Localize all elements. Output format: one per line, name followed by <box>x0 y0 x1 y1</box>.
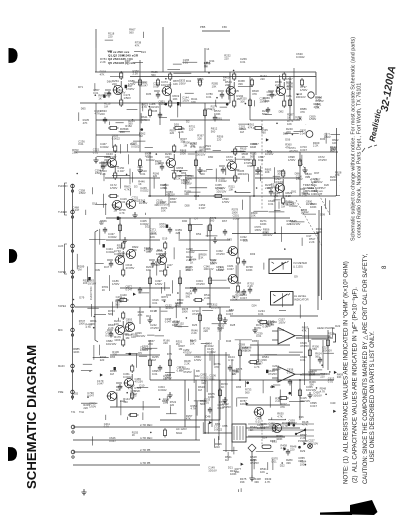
component value label <box>263 322 270 329</box>
transistor Q1 <box>113 85 123 94</box>
wire <box>105 415 107 420</box>
capacitor <box>193 287 197 294</box>
svg-text:1/50V: 1/50V <box>233 216 240 220</box>
component value label <box>176 339 183 346</box>
wire <box>235 265 237 278</box>
wire <box>206 225 208 237</box>
wire <box>253 100 255 106</box>
component value label <box>248 123 255 130</box>
component value label <box>314 177 323 184</box>
component value label <box>124 329 131 336</box>
component value label <box>142 344 152 351</box>
svg-text:100K: 100K <box>118 254 124 258</box>
svg-text:220: 220 <box>170 131 175 135</box>
resistor <box>108 194 119 197</box>
component value label <box>302 420 309 427</box>
wire <box>96 134 140 136</box>
component value label <box>287 200 294 207</box>
wire <box>281 462 283 464</box>
component value label <box>180 137 187 144</box>
svg-text:10/16V: 10/16V <box>277 172 286 176</box>
component value label <box>229 308 234 312</box>
component value label <box>98 94 105 101</box>
component value label <box>272 364 281 371</box>
svg-text:D83: D83 <box>227 238 232 242</box>
component value labels <box>124 93 131 100</box>
component value label <box>183 141 190 148</box>
capacitor <box>228 365 232 372</box>
wire <box>253 460 255 469</box>
component value label <box>254 477 261 484</box>
component value label <box>142 102 149 109</box>
component value label <box>312 344 319 351</box>
resistor <box>208 223 211 233</box>
wire <box>321 364 323 366</box>
component value label <box>186 414 193 421</box>
wire <box>220 106 228 108</box>
svg-text:0.0022: 0.0022 <box>105 334 114 338</box>
svg-text:10K: 10K <box>150 235 155 239</box>
svg-text:D58: D58 <box>185 203 190 207</box>
svg-text:1K: 1K <box>138 182 141 186</box>
svg-text:560: 560 <box>155 263 160 267</box>
junction node <box>253 195 255 197</box>
resistor <box>194 158 197 168</box>
svg-text:1/50V: 1/50V <box>288 158 295 162</box>
svg-text:D46: D46 <box>226 339 232 343</box>
wire <box>235 191 251 193</box>
component value labels <box>216 265 223 272</box>
component value labels <box>100 142 109 149</box>
component value label <box>167 352 172 356</box>
component value label <box>97 379 104 386</box>
component value labels <box>250 142 257 149</box>
wire <box>73 299 75 301</box>
svg-text:D81: D81 <box>287 94 293 98</box>
resistor <box>248 360 259 363</box>
wire meter right vertical <box>317 234 319 311</box>
wire <box>249 77 251 120</box>
svg-text:D22: D22 <box>335 324 340 328</box>
capacitor <box>168 227 172 234</box>
svg-text:10K: 10K <box>159 255 164 259</box>
resistor <box>198 78 201 87</box>
wire <box>122 251 124 256</box>
component value label <box>184 359 191 366</box>
svg-text:D9: D9 <box>294 275 298 279</box>
wire <box>156 263 158 276</box>
component value label <box>313 189 318 193</box>
svg-text:1/50V: 1/50V <box>89 404 96 408</box>
component value label <box>272 440 277 444</box>
wire <box>165 78 167 80</box>
wire <box>299 118 301 120</box>
input jack <box>71 425 75 433</box>
wire <box>246 404 290 406</box>
svg-text:47/25V: 47/25V <box>268 372 277 376</box>
component value labels <box>126 333 133 340</box>
component value labels <box>230 323 236 327</box>
component value labels <box>182 219 188 223</box>
wire <box>105 39 113 41</box>
component value labels <box>282 421 289 428</box>
component blob <box>241 463 244 466</box>
component value label <box>73 205 80 212</box>
wire <box>235 191 237 193</box>
component value label <box>328 332 335 339</box>
wire <box>114 86 116 88</box>
wire <box>277 329 279 343</box>
wire <box>180 171 182 173</box>
wire <box>331 328 333 338</box>
component value label <box>247 281 254 288</box>
resistor <box>148 276 151 286</box>
component value labels <box>318 155 327 162</box>
wire <box>85 210 87 215</box>
component value label <box>184 189 191 196</box>
transistor Q12 <box>115 255 125 264</box>
component value labels <box>222 219 228 223</box>
wire <box>171 170 187 172</box>
wire <box>250 119 300 121</box>
svg-text:220: 220 <box>217 137 222 141</box>
component value label <box>79 296 84 300</box>
component value label <box>201 378 208 385</box>
wire <box>238 123 249 125</box>
wire <box>273 175 281 177</box>
wire <box>224 401 226 403</box>
component value label <box>331 147 336 151</box>
component value labels <box>225 455 232 462</box>
junction node <box>189 259 191 261</box>
wire <box>240 488 242 492</box>
svg-text:10/16V: 10/16V <box>265 152 274 156</box>
component value labels <box>206 92 213 99</box>
component value labels <box>236 281 242 285</box>
component value label <box>195 217 199 221</box>
wire <box>329 371 331 373</box>
component value label <box>315 103 322 110</box>
binder punch mark middle <box>9 249 17 263</box>
ground <box>222 397 227 403</box>
component value label <box>287 119 294 126</box>
svg-text:4.7K: 4.7K <box>254 365 260 369</box>
svg-text:560: 560 <box>115 302 120 306</box>
component value labels <box>305 172 312 179</box>
resistor <box>173 171 176 180</box>
wire <box>273 384 280 386</box>
capacitor <box>208 407 212 414</box>
wire <box>210 279 227 281</box>
svg-text:2.2K: 2.2K <box>133 72 139 76</box>
wire stub top right <box>293 68 295 120</box>
junction node <box>204 432 206 434</box>
component value labels <box>186 265 193 272</box>
component value labels <box>152 109 158 113</box>
capacitor <box>156 92 160 99</box>
component value labels <box>150 309 156 313</box>
svg-text:47K: 47K <box>186 417 191 421</box>
svg-text:33K: 33K <box>254 480 259 484</box>
component value label <box>278 318 285 325</box>
wire <box>305 428 307 441</box>
component value label <box>256 359 263 366</box>
wire meter col 2 <box>237 264 239 284</box>
wire <box>116 395 118 406</box>
wire <box>209 353 211 361</box>
wire <box>189 218 191 260</box>
component value label <box>273 191 280 198</box>
component value labels <box>252 339 258 343</box>
component value label <box>210 216 217 223</box>
component value label <box>330 146 337 153</box>
svg-text:0.047: 0.047 <box>118 169 125 173</box>
svg-text:D52: D52 <box>196 232 202 236</box>
component value labels <box>148 339 155 346</box>
svg-text:100K: 100K <box>263 99 269 103</box>
svg-text:D55: D55 <box>73 392 78 396</box>
wire <box>269 396 271 407</box>
svg-text:47K: 47K <box>211 108 216 112</box>
svg-text:PB5: PB5 <box>200 25 206 29</box>
transistor Q6 <box>166 158 176 167</box>
svg-text:D47: D47 <box>168 263 174 267</box>
svg-text:100/10V: 100/10V <box>296 95 306 99</box>
wire <box>282 263 284 270</box>
svg-text:100K: 100K <box>79 322 85 326</box>
svg-text:0.01: 0.01 <box>240 60 246 64</box>
component value label <box>182 307 189 314</box>
input jack <box>71 184 75 192</box>
svg-text:1/50V: 1/50V <box>79 191 86 195</box>
svg-text:0.01: 0.01 <box>271 460 277 464</box>
svg-text:220: 220 <box>112 82 117 86</box>
svg-text:INDICATOR: INDICATOR <box>294 298 309 302</box>
wire left jack bus <box>72 184 74 400</box>
wire <box>209 270 211 307</box>
wire <box>116 122 124 124</box>
wire <box>168 193 170 207</box>
component value label <box>250 152 257 159</box>
wire <box>140 113 142 123</box>
transistor Q14 <box>157 255 167 264</box>
component value label <box>239 124 246 131</box>
wire <box>136 354 138 368</box>
wire <box>301 155 303 164</box>
wire <box>175 303 177 318</box>
wire <box>139 355 147 357</box>
svg-text:D90: D90 <box>182 219 188 223</box>
svg-text:FUNCTION: FUNCTION <box>89 286 93 300</box>
svg-text:2.2K: 2.2K <box>286 194 292 198</box>
wire <box>94 313 106 315</box>
svg-text:D45: D45 <box>152 109 158 113</box>
svg-text:33K: 33K <box>305 175 310 179</box>
wire <box>149 270 151 307</box>
component value labels <box>178 127 185 134</box>
component value label <box>179 79 186 86</box>
wire bottom vertical 1 <box>184 380 186 427</box>
component value label <box>212 82 219 89</box>
component value labels <box>258 155 265 162</box>
wire <box>105 89 111 91</box>
input jack <box>71 210 75 218</box>
wire <box>95 48 97 72</box>
component value label <box>159 252 166 259</box>
wire <box>167 266 169 268</box>
wire <box>76 173 78 175</box>
component value labels <box>192 309 201 316</box>
component value label <box>240 477 247 484</box>
svg-text:D65: D65 <box>236 385 242 389</box>
svg-text:0.01: 0.01 <box>104 425 110 429</box>
component value label <box>232 295 239 302</box>
component blob <box>304 442 307 445</box>
component value label <box>296 174 303 181</box>
svg-text:100K: 100K <box>182 310 188 314</box>
resistor <box>114 171 117 180</box>
component value label <box>265 149 274 156</box>
component value label <box>211 105 218 112</box>
svg-text:D39: D39 <box>95 268 100 272</box>
svg-text:1K: 1K <box>250 428 254 432</box>
component value labels <box>236 385 242 389</box>
wire headphone line <box>296 337 333 339</box>
svg-text:0.0022: 0.0022 <box>158 388 167 392</box>
component value label <box>89 402 96 409</box>
component value label <box>315 95 322 102</box>
wire <box>266 472 268 474</box>
component value label <box>197 134 204 141</box>
component value label <box>245 388 252 395</box>
svg-text:2.2K: 2.2K <box>191 331 197 335</box>
wire <box>214 439 216 448</box>
svg-text:100/10V: 100/10V <box>204 267 214 271</box>
svg-text:47K: 47K <box>214 365 219 369</box>
wire <box>207 423 209 434</box>
wire <box>177 102 179 117</box>
component value label <box>314 171 319 175</box>
capacitor <box>220 92 224 99</box>
svg-text:MIC: MIC <box>58 328 63 332</box>
svg-text:0.047: 0.047 <box>226 312 233 316</box>
wire <box>126 417 128 420</box>
bracket input group 1 <box>65 183 68 215</box>
component value label <box>107 79 112 83</box>
svg-text:D24: D24 <box>141 50 146 54</box>
resistor <box>164 268 167 277</box>
wire <box>139 307 141 324</box>
wire <box>107 329 113 331</box>
component value label <box>269 421 278 428</box>
wire <box>173 154 175 159</box>
component value label <box>315 352 322 359</box>
capacitor <box>103 227 107 234</box>
svg-text:0.047: 0.047 <box>310 404 317 408</box>
svg-text:220: 220 <box>145 154 150 158</box>
svg-text:D56: D56 <box>207 302 212 306</box>
component value label <box>254 225 261 232</box>
wire vertical to output row <box>231 360 233 452</box>
resistor <box>156 78 159 87</box>
svg-text:1K: 1K <box>190 260 193 264</box>
component value label <box>132 196 141 203</box>
wire <box>202 310 213 312</box>
component value label <box>179 344 186 351</box>
resistor <box>282 169 285 178</box>
svg-text:0.047: 0.047 <box>199 206 206 210</box>
component value label <box>187 174 194 181</box>
svg-text:2.2K: 2.2K <box>232 297 238 301</box>
wire <box>87 396 89 398</box>
wire <box>129 169 131 185</box>
component value label <box>109 436 116 443</box>
component value labels <box>200 399 207 406</box>
capacitor <box>107 91 111 98</box>
component value label <box>197 77 204 84</box>
wire meter col <box>237 218 239 256</box>
svg-text:220: 220 <box>83 406 88 410</box>
transistor Q21 <box>254 407 264 416</box>
wire <box>274 196 276 233</box>
resistor <box>138 158 141 168</box>
svg-text:D71: D71 <box>78 85 83 89</box>
wire <box>138 292 149 294</box>
component value labels <box>214 109 221 116</box>
transistor Q10 <box>112 200 122 209</box>
component value label <box>265 167 272 174</box>
wire <box>314 73 317 75</box>
component value labels <box>120 127 127 134</box>
svg-text:47K: 47K <box>191 144 196 148</box>
capacitor <box>101 164 105 171</box>
component value label <box>199 203 206 210</box>
component value label <box>309 114 316 121</box>
wire <box>155 310 157 312</box>
wire <box>149 106 151 108</box>
wire <box>325 394 327 396</box>
junction node <box>299 379 301 381</box>
svg-text:0.01: 0.01 <box>300 358 306 362</box>
transistor Q17 <box>115 325 125 334</box>
ground <box>255 167 260 173</box>
wire <box>174 326 188 328</box>
component value label <box>322 346 332 353</box>
bracket input group 2 <box>65 244 68 274</box>
svg-text:100/10V: 100/10V <box>195 152 205 156</box>
component value label <box>232 369 239 376</box>
component blob <box>284 447 287 450</box>
component value label <box>112 350 119 357</box>
component value label <box>290 445 297 452</box>
svg-text:47/25V: 47/25V <box>289 149 298 153</box>
wire <box>103 194 105 208</box>
component value label <box>153 171 160 178</box>
svg-text:1K: 1K <box>132 433 135 437</box>
component value label <box>203 326 210 333</box>
component value labels <box>152 355 159 362</box>
transistor Q20 <box>107 391 117 400</box>
wire long bus row2 <box>74 151 338 153</box>
junction node <box>317 232 319 234</box>
component value label <box>104 102 111 109</box>
component value labels <box>300 449 306 453</box>
component value label <box>217 326 224 333</box>
wire <box>301 238 303 246</box>
component value labels <box>165 152 172 159</box>
transistor Q3 <box>276 86 286 95</box>
svg-text:D79: D79 <box>276 379 281 383</box>
